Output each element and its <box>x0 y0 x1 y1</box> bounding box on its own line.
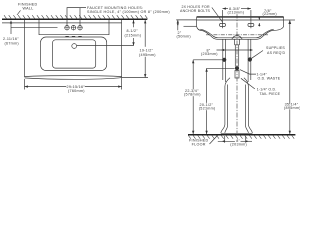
left view: drain circle <box>72 44 77 49</box>
svg-text:O.D. WASTE: O.D. WASTE <box>258 77 281 81</box>
label: FINISHED WALL leader <box>17 10 21 15</box>
right view: pedestal base bottom <box>221 132 252 134</box>
svg-text:8-1/2": 8-1/2" <box>127 29 139 33</box>
left view: hidden hole dashes on deck <box>65 36 81 38</box>
left view: faucet hole 1 <box>64 25 69 30</box>
right view: top extension line for 35-1/4 <box>284 19 295 21</box>
svg-text:WALL: WALL <box>23 7 34 11</box>
svg-text:(50mm): (50mm) <box>177 34 191 38</box>
right view: waste outlet stub <box>235 39 240 45</box>
svg-text:(521mm): (521mm) <box>199 107 216 111</box>
left view: finished wall line <box>2 18 147 20</box>
right view: deck line <box>197 19 284 21</box>
right view: tailpiece rect <box>235 70 239 78</box>
svg-text:(67mm): (67mm) <box>5 41 19 45</box>
right view: pedestal outline <box>221 78 252 134</box>
right view: dim 8 base <box>218 140 252 142</box>
svg-text:(203mm): (203mm) <box>201 52 218 56</box>
svg-text:ANCHOR BOLTS: ANCHOR BOLTS <box>180 9 211 13</box>
svg-text:SUPPLIES: SUPPLIES <box>266 46 285 50</box>
right view: dim 8-3/8 <box>223 7 251 21</box>
svg-text:TAIL PIECE: TAIL PIECE <box>260 92 281 96</box>
left view: wall hatching <box>4 15 147 18</box>
right view: dim 35-1/4 <box>288 20 291 134</box>
left view: faucet note leader <box>67 8 86 26</box>
svg-text:FLOOR: FLOOR <box>192 143 206 147</box>
right view: dim 20-1/2 <box>205 68 207 134</box>
right view: sink top bold line <box>197 16 284 18</box>
left view: width dim extension right <box>121 78 123 90</box>
left view: dim 8-1/2 wall to drain <box>132 20 134 46</box>
right view: base width extension left <box>224 136 226 143</box>
right view: sink body outline <box>197 17 284 39</box>
right view: dim 2in <box>176 20 196 30</box>
right view: waste outlet bump <box>232 36 242 40</box>
right view: finished floor label leader <box>210 135 218 144</box>
left view: front extension line for 19-1/2 <box>121 77 148 79</box>
right view: dim 7/8 <box>258 16 260 26</box>
right view: waste dot <box>235 66 239 70</box>
right view: base width extension right <box>245 136 247 143</box>
left view: hole centerline extension <box>11 27 58 29</box>
left view: width dim extension left <box>24 79 26 90</box>
svg-text:2-11/16": 2-11/16" <box>3 37 19 41</box>
right view: pedestal inner contour <box>225 85 249 134</box>
left view: sink front apron lower curve <box>25 78 122 80</box>
right view: anchor slot right <box>248 22 254 29</box>
left view: sink outer outline <box>25 20 122 77</box>
svg-text:(22mm): (22mm) <box>263 12 277 16</box>
left view: faucet hole 2 <box>71 25 76 30</box>
left view: width dim line 29-15/16 <box>25 85 122 87</box>
left view: dim 2-11/16 line <box>10 20 12 34</box>
right view: supply height extension <box>193 59 222 61</box>
right view: dim 8 supplies <box>217 49 254 51</box>
left view: faucet hole 3 <box>77 25 82 30</box>
right view: supply pipe left <box>223 39 226 82</box>
right view: waste pipe <box>235 45 238 67</box>
right view: supply dot left <box>222 58 226 62</box>
left view: deck opening rounded rect <box>41 37 107 71</box>
right view: waste label leader <box>240 70 256 75</box>
right view: supply pipe right <box>248 39 251 82</box>
svg-text:(578mm): (578mm) <box>184 93 201 97</box>
left view: drain leader to 8-1/2 dim <box>77 45 134 47</box>
left view: basin inner rounded rect <box>53 40 96 68</box>
svg-text:(495mm): (495mm) <box>139 53 156 57</box>
right view: waste height extension <box>207 67 235 69</box>
right view: supply dot right <box>248 57 252 61</box>
svg-text:(213mm): (213mm) <box>228 11 245 15</box>
svg-text:(203mm): (203mm) <box>230 143 247 147</box>
right view: hanger dash-dot line <box>206 34 268 36</box>
svg-text:(760mm): (760mm) <box>68 89 85 93</box>
right view: dim 22-3/4 <box>192 60 194 134</box>
right view: supplies label leader <box>252 51 263 59</box>
right view: shell inner contour <box>200 29 274 38</box>
svg-text:AS REQ'D: AS REQ'D <box>267 51 285 55</box>
right view: center dash-dot line <box>236 14 238 134</box>
right view: anchor slot left <box>220 22 226 29</box>
right view: tailpiece label leader <box>241 78 255 89</box>
left view: dim 19-1/2 wall to front <box>144 20 146 78</box>
right view: anchor bolts label leader <box>212 7 223 22</box>
svg-text:(895mm): (895mm) <box>284 106 300 110</box>
right view: finished floor line <box>188 134 295 136</box>
right view: floor hatching <box>188 136 294 139</box>
svg-text:(215mm): (215mm) <box>125 34 142 38</box>
svg-text:SINGLE HOLE, 4" (100mm) OR 8": SINGLE HOLE, 4" (100mm) OR 8" (200mm) <box>87 10 170 14</box>
left view: back ledge step <box>39 20 109 35</box>
left view: wall lower line <box>2 22 122 24</box>
